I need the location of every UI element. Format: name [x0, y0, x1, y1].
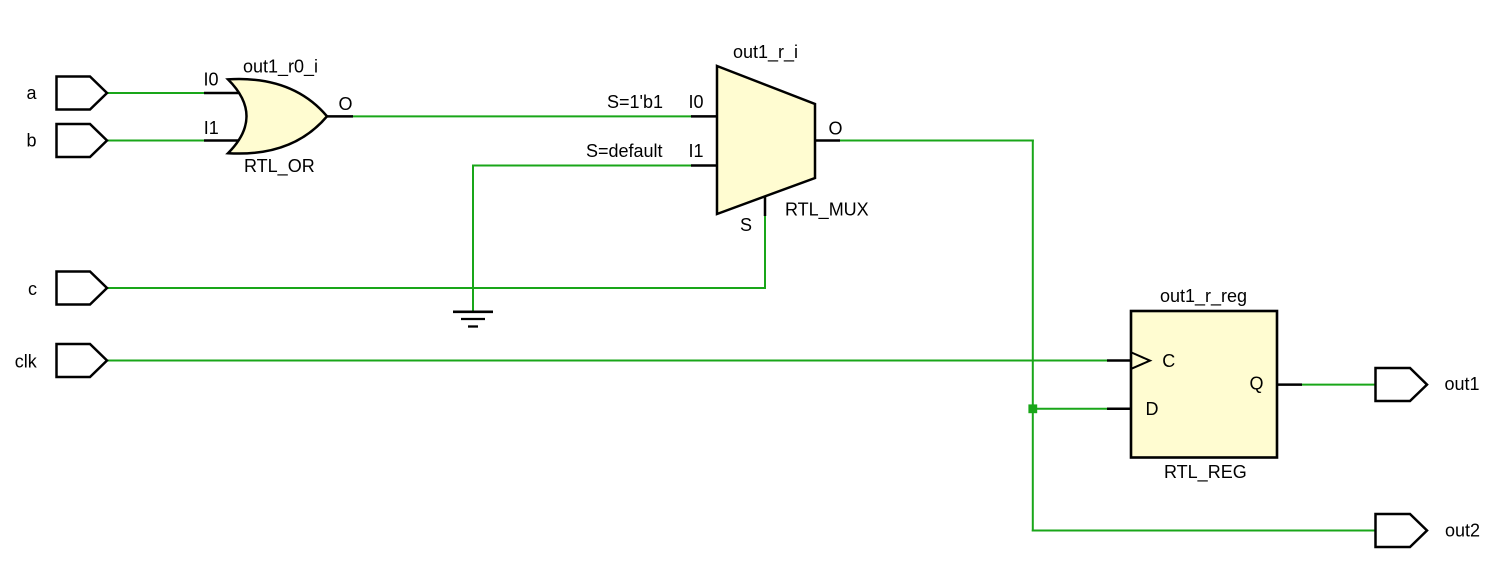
wire net b to OR I1: [107, 140, 206, 142]
output port out2: [1376, 514, 1428, 547]
svg-text:out1_r0_i: out1_r0_i: [243, 57, 318, 78]
register out1_r_reg: [1131, 311, 1277, 458]
pin C of REG: [1107, 359, 1131, 362]
pin D of REG: [1107, 408, 1131, 411]
svg-text:I1: I1: [204, 118, 219, 138]
svg-text:c: c: [28, 279, 37, 299]
ground symbol: [453, 312, 493, 327]
svg-text:b: b: [27, 131, 37, 151]
svg-text:I0: I0: [204, 70, 219, 90]
svg-text:D: D: [1146, 399, 1159, 419]
svg-text:a: a: [27, 83, 38, 103]
svg-text:I1: I1: [689, 141, 704, 161]
wire net c vertical to MUX S: [764, 214, 766, 289]
input port c: [57, 272, 108, 305]
pin Q of REG: [1277, 383, 1302, 386]
pin I0 of OR gate: [204, 92, 240, 95]
svg-text:I0: I0: [689, 92, 704, 112]
wire net ground vertical: [472, 165, 474, 312]
OR gate out1_r0_i: [228, 79, 327, 153]
wire branch to REG D: [1033, 408, 1108, 410]
svg-text:out2: out2: [1445, 521, 1480, 541]
wire net ground to MUX I1 horizontal: [472, 165, 692, 167]
wire net a to OR I0: [107, 92, 206, 94]
svg-text:RTL_REG: RTL_REG: [1164, 462, 1247, 483]
wire net clk to REG C: [107, 360, 1108, 362]
svg-text:Q: Q: [1250, 374, 1264, 394]
register clock triangle: [1132, 353, 1151, 369]
wire net c horizontal: [107, 287, 766, 289]
svg-text:out1_r_reg: out1_r_reg: [1160, 286, 1247, 307]
input port b: [57, 124, 108, 157]
pin O of OR gate: [327, 115, 353, 118]
wire net MUX O horizontal: [840, 140, 1034, 142]
junction dot on D branch: [1028, 404, 1037, 413]
wire to out2 port: [1032, 530, 1375, 532]
input port a: [57, 77, 108, 110]
pin I1 of OR gate: [204, 139, 240, 142]
wire net REG Q to out1: [1301, 384, 1375, 386]
svg-text:out1: out1: [1445, 374, 1480, 394]
svg-text:S=1'b1: S=1'b1: [607, 92, 663, 112]
pin I1 of MUX: [691, 164, 717, 167]
wire net OR O to MUX I0: [352, 115, 692, 117]
svg-text:RTL_OR: RTL_OR: [244, 156, 315, 177]
pin S of MUX: [764, 196, 767, 216]
svg-text:O: O: [829, 118, 843, 138]
output port out1: [1376, 368, 1428, 401]
svg-text:O: O: [339, 94, 353, 114]
input port clk: [57, 344, 108, 377]
wire net MUX O vertical: [1032, 140, 1034, 532]
svg-text:RTL_MUX: RTL_MUX: [785, 200, 869, 221]
MUX out1_r_i: [717, 66, 815, 214]
svg-text:S=default: S=default: [586, 141, 663, 161]
svg-text:clk: clk: [15, 352, 38, 372]
svg-text:S: S: [740, 215, 752, 235]
svg-text:out1_r_i: out1_r_i: [733, 42, 798, 63]
svg-text:C: C: [1162, 351, 1175, 371]
pin I0 of MUX: [691, 115, 717, 118]
pin O of MUX: [815, 139, 840, 142]
